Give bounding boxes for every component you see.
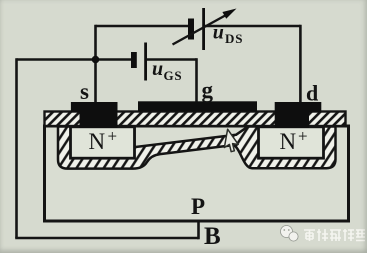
wire: drain drop xyxy=(299,25,302,102)
N+ drain region xyxy=(259,127,324,158)
wire: vertical from top wire through junction to s contact xyxy=(94,25,97,102)
battery u_DS (variable) xyxy=(173,8,237,50)
wire: u_GS battery to gate corner xyxy=(146,58,196,61)
source contact s xyxy=(71,102,118,128)
svg-text:s: s xyxy=(80,79,89,104)
oxide layer (hatched) xyxy=(45,112,346,127)
svg-text:N: N xyxy=(280,129,297,154)
svg-text:+: + xyxy=(298,126,308,145)
wire: top u_DS loop horizontal (left of battery) xyxy=(96,25,190,28)
svg-text:P: P xyxy=(191,194,205,219)
wire: B riser to substrate xyxy=(197,221,200,239)
wire: bottom horizontal to B xyxy=(15,237,198,240)
watermark text (stylized glyphs) xyxy=(304,229,365,241)
junction dot xyxy=(92,56,100,64)
battery u_GS xyxy=(131,43,147,81)
wire: gate drop xyxy=(195,58,198,102)
svg-text:GS: GS xyxy=(164,68,183,83)
watermark icon xyxy=(281,226,299,242)
N+ source region xyxy=(71,127,135,158)
svg-text:g: g xyxy=(202,77,214,102)
mouse cursor xyxy=(224,129,241,152)
svg-text:B: B xyxy=(204,223,221,250)
svg-text:N: N xyxy=(89,129,106,154)
wire: top u_DS loop horizontal (right of battery) xyxy=(204,25,301,28)
svg-text:u: u xyxy=(213,21,224,43)
gate contact g xyxy=(138,101,257,111)
wire: horizontal at junction level to u_GS battery xyxy=(17,58,132,61)
drain contact d xyxy=(275,102,322,128)
svg-text:d: d xyxy=(306,81,318,106)
svg-text:DS: DS xyxy=(225,31,243,46)
wire: left vertical down to bottom loop xyxy=(15,58,18,238)
P substrate body xyxy=(45,126,349,221)
svg-text:+: + xyxy=(108,126,118,145)
diffusion wrap + channel (hatched region) xyxy=(58,127,336,169)
svg-text:u: u xyxy=(152,58,163,80)
